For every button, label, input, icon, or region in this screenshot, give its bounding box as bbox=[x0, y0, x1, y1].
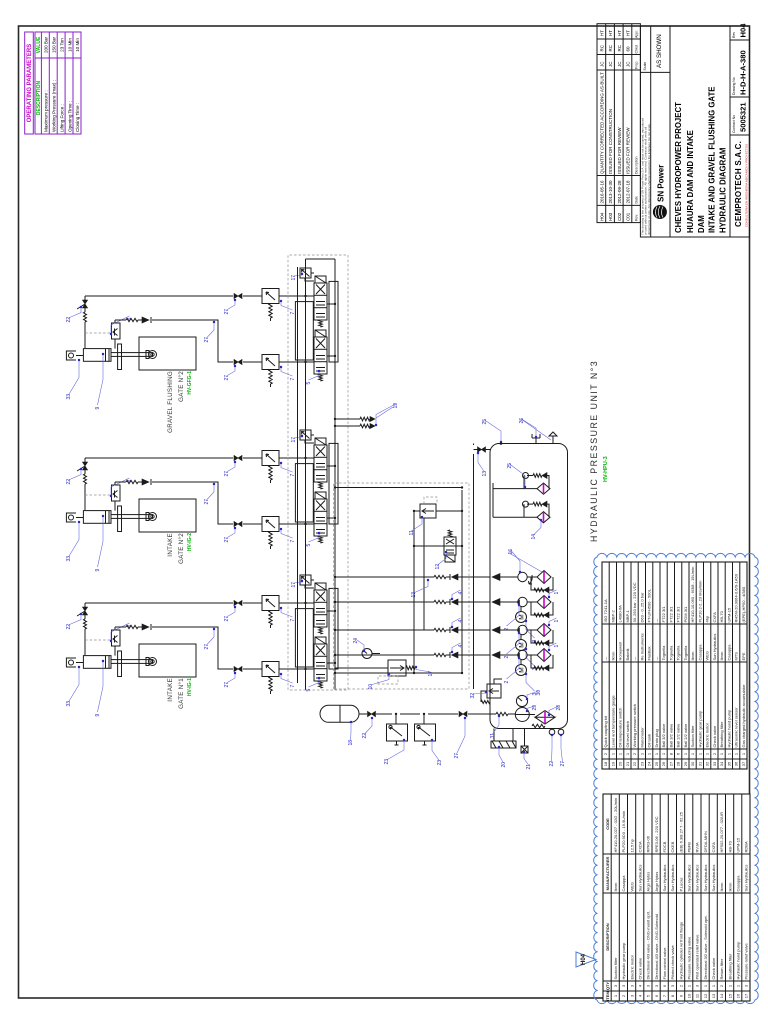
svg-text:HYDRAULIC PRESSURE UNIT N°3: HYDRAULIC PRESSURE UNIT N°3 bbox=[589, 360, 599, 542]
level gauge 20 bbox=[491, 741, 516, 748]
svg-text:Scale: Scale bbox=[643, 62, 647, 71]
title block bbox=[640, 23, 749, 237]
svg-text:CXFA: CXFA bbox=[712, 612, 717, 623]
svg-text:Manometer: Manometer bbox=[640, 727, 645, 748]
svg-text:Sun Hydraulics: Sun Hydraulics bbox=[695, 865, 700, 892]
svg-text:4: 4 bbox=[458, 592, 464, 595]
svg-text:MBP-2: MBP-2 bbox=[611, 610, 616, 623]
svg-text:QUANTITY CORRECTED ACCORDING A: QUANTITY CORRECTED ACCORDING AS-BUILT bbox=[600, 72, 605, 174]
svg-text:14: 14 bbox=[719, 993, 724, 998]
svg-text:29: 29 bbox=[683, 761, 688, 766]
svg-text:28: 28 bbox=[556, 705, 562, 711]
svg-text:Check valve: Check valve bbox=[638, 957, 643, 980]
svg-text:RPE3-06 - 220 VDC: RPE3-06 - 220 VDC bbox=[654, 816, 659, 852]
shut-off 27 bbox=[459, 711, 467, 716]
svg-text:Sun Hydraulics: Sun Hydraulics bbox=[711, 865, 716, 892]
wire cylinder rod-side to ball valve bbox=[85, 296, 314, 348]
svg-text:37: 37 bbox=[741, 761, 746, 766]
wire cylinder piston-side via hose and check to valve block bbox=[115, 320, 314, 362]
main DCV 5 (left) bbox=[314, 330, 327, 381]
svg-text:Directional 3/2 valve - Soleno: Directional 3/2 valve - Solenoid oprt. bbox=[703, 915, 708, 979]
tank breather and filler bbox=[532, 434, 540, 444]
drain fittings bbox=[549, 729, 555, 735]
svg-text:FT22 3/1: FT22 3/1 bbox=[676, 606, 681, 623]
reducing header bbox=[423, 518, 425, 630]
svg-text:PBFB: PBFB bbox=[687, 842, 692, 853]
svg-text:JC: JC bbox=[617, 61, 622, 67]
flow control valve 7 pipe A bbox=[262, 289, 279, 304]
svg-text:FT22 3/1: FT22 3/1 bbox=[661, 606, 666, 623]
svg-text:Casappa: Casappa bbox=[736, 875, 741, 892]
svg-text:17: 17 bbox=[428, 671, 434, 677]
suction filter diamond bbox=[537, 596, 551, 609]
svg-text:Casappa: Casappa bbox=[727, 644, 732, 661]
operating parameters table bbox=[25, 32, 81, 134]
svg-text:12: 12 bbox=[435, 564, 441, 570]
svg-text:HUAURA DAM AND INTAKE: HUAURA DAM AND INTAKE bbox=[686, 130, 695, 233]
svg-text:JC: JC bbox=[626, 61, 631, 67]
svg-text:17: 17 bbox=[291, 275, 297, 281]
svg-text:GATE N°1: GATE N°1 bbox=[178, 678, 185, 709]
svg-text:INTAKE: INTAKE bbox=[167, 533, 174, 557]
svg-text:9: 9 bbox=[95, 407, 101, 410]
svg-text:Bakelit: Bakelit bbox=[625, 648, 630, 661]
svg-text:Electric motor: Electric motor bbox=[705, 722, 710, 747]
svg-text:CONSULTORIA EN INGENIERIA MECA: CONSULTORIA EN INGENIERIA MECANICA Y PRO… bbox=[745, 144, 749, 227]
svg-text:26: 26 bbox=[661, 761, 666, 766]
svg-text:Sun Hydraulics: Sun Hydraulics bbox=[662, 865, 667, 892]
svg-text:ISSUED FOR CONSTRUCTION: ISSUED FOR CONSTRUCTION bbox=[608, 109, 613, 174]
hose flexible line bbox=[84, 312, 87, 322]
reducing valve 11 bbox=[420, 504, 436, 518]
svg-text:Ball 3/2 valve: Ball 3/2 valve bbox=[669, 723, 674, 748]
svg-text:Sun Hydraulics: Sun Hydraulics bbox=[703, 865, 708, 892]
svg-text:26: 26 bbox=[519, 418, 525, 424]
svg-text:Casappa: Casappa bbox=[621, 875, 626, 892]
svg-text:JC: JC bbox=[600, 61, 605, 67]
svg-text:Fluidtek: Fluidtek bbox=[647, 646, 652, 660]
svg-text:Hydraulic gear pump: Hydraulic gear pump bbox=[698, 710, 703, 748]
svg-text:FDCB: FDCB bbox=[662, 841, 667, 852]
svg-text:PLP20.9D3 - 19.9L/min: PLP20.9D3 - 19.9L/min bbox=[621, 811, 626, 853]
svg-text:27: 27 bbox=[560, 761, 566, 767]
svg-text:30: 30 bbox=[536, 690, 542, 696]
svg-text:33: 33 bbox=[712, 761, 717, 766]
svg-text:Oil tank: Oil tank bbox=[647, 734, 652, 748]
svg-text:Ikron: Ikron bbox=[727, 883, 732, 892]
svg-text:22: 22 bbox=[549, 761, 555, 767]
svg-text:19: 19 bbox=[393, 403, 399, 409]
svg-text:Hydraulic gear pump: Hydraulic gear pump bbox=[621, 942, 626, 980]
svg-text:P.Lucas: P.Lucas bbox=[678, 878, 683, 892]
pressure gauge 24 bbox=[362, 649, 372, 659]
revision triangle H04 bbox=[576, 952, 596, 967]
ball valve 27 on pipe A bbox=[234, 293, 242, 298]
svg-text:PGM 3/1: PGM 3/1 bbox=[683, 606, 688, 623]
svg-text:Ikron: Ikron bbox=[613, 883, 618, 892]
svg-text:Directional 4/3 valve - DNG-ma: Directional 4/3 valve - DNG-manit oprt. bbox=[646, 911, 651, 980]
hose bbox=[496, 712, 508, 715]
svg-text:Working pressure switch: Working pressure switch bbox=[632, 704, 637, 748]
svg-text:HF410-20.027 - 02/2 - 20L/min: HF410-20.027 - 02/2 - 20L/min bbox=[613, 798, 618, 853]
svg-text:Appr.: Appr. bbox=[635, 30, 639, 38]
valve manifold dashed enclosure bbox=[288, 255, 348, 690]
svg-text:150 Bar: 150 Bar bbox=[52, 36, 57, 53]
svg-text:MBP-1: MBP-1 bbox=[625, 610, 630, 623]
svg-text:21: 21 bbox=[526, 764, 532, 770]
svg-text:Suction filter: Suction filter bbox=[690, 725, 695, 748]
svg-text:QTY: QTY bbox=[605, 982, 610, 991]
check valve 13 into tank bbox=[474, 449, 491, 451]
svg-text:RH5M-20.0064-0.6/S-1A50: RH5M-20.0064-0.6/S-1A50 bbox=[734, 573, 739, 622]
svg-text:Sun Hydraulics: Sun Hydraulics bbox=[744, 865, 749, 892]
svg-text:HYDRAULIC DIAGRAM: HYDRAULIC DIAGRAM bbox=[719, 148, 728, 233]
svg-text:200 Bar: 200 Bar bbox=[44, 36, 49, 53]
svg-text:Tognella: Tognella bbox=[661, 645, 666, 661]
svg-text:Level and temperature gauge: Level and temperature gauge bbox=[611, 694, 616, 747]
svg-text:23: 23 bbox=[384, 759, 390, 765]
svg-text:ISO 7241-1A: ISO 7241-1A bbox=[603, 599, 608, 622]
svg-text:27: 27 bbox=[454, 753, 460, 759]
svg-text:CXDA: CXDA bbox=[638, 841, 643, 852]
svg-text:Ball 3/2 valve: Ball 3/2 valve bbox=[661, 723, 666, 748]
svg-text:RC: RC bbox=[608, 44, 613, 51]
svg-text:23: 23 bbox=[640, 761, 645, 766]
svg-text:Contract No: Contract No bbox=[732, 115, 736, 133]
svg-text:SN Power: SN Power bbox=[656, 165, 665, 202]
svg-text:10 Min: 10 Min bbox=[75, 38, 80, 52]
relief valve 10 bbox=[388, 660, 406, 676]
svg-text:13: 13 bbox=[482, 471, 488, 477]
svg-text:DESCRIPTION: DESCRIPTION bbox=[36, 81, 42, 116]
svg-text:28: 28 bbox=[676, 761, 681, 766]
svg-text:H-D-H-A-380: H-D-H-A-380 bbox=[739, 50, 748, 95]
svg-text:20: 20 bbox=[501, 762, 507, 768]
svg-text:DFDA-MHN: DFDA-MHN bbox=[703, 831, 708, 852]
svg-text:20: 20 bbox=[618, 761, 623, 766]
svg-text:CODE: CODE bbox=[605, 818, 610, 830]
gate circuit: intake gate 1 (copy) bbox=[66, 575, 338, 717]
svg-text:4hp: 4hp bbox=[705, 615, 710, 622]
svg-text:2016-05-16: 2016-05-16 bbox=[600, 180, 605, 204]
svg-text:Casappa: Casappa bbox=[698, 644, 703, 661]
svg-text:23: 23 bbox=[437, 760, 443, 766]
svg-text:36: 36 bbox=[734, 761, 739, 766]
svg-text:Piloted check valve: Piloted check valve bbox=[670, 944, 675, 979]
svg-text:Quick coupling kit: Quick coupling kit bbox=[603, 715, 608, 747]
svg-text:Honeywell: Honeywell bbox=[618, 642, 623, 661]
svg-text:Tognella: Tognella bbox=[669, 645, 674, 661]
svg-text:Description: Description bbox=[635, 156, 639, 174]
hydraulic cylinder 9 with clevis and gate leaf bbox=[66, 351, 76, 360]
svg-text:19: 19 bbox=[611, 761, 616, 766]
svg-text:WEG: WEG bbox=[629, 882, 634, 892]
pilot valve 17 bbox=[300, 268, 311, 278]
svg-text:VALUE: VALUE bbox=[36, 36, 42, 53]
svg-text:GATE N°2: GATE N°2 bbox=[178, 533, 185, 564]
svg-text:C01: C01 bbox=[626, 212, 631, 221]
svg-text:30: 30 bbox=[690, 761, 695, 766]
svg-text:Gas charged hydraulic accumula: Gas charged hydraulic accumulator bbox=[741, 684, 746, 748]
svg-text:ISSUED FOR REVIEW: ISSUED FOR REVIEW bbox=[617, 127, 622, 174]
accumulator 18 and hand pump line bbox=[320, 679, 562, 766]
svg-text:30..250 bar - 220 VDC: 30..250 bar - 220 VDC bbox=[632, 582, 637, 622]
svg-text:27: 27 bbox=[204, 337, 210, 343]
svg-text:C02: C02 bbox=[617, 212, 622, 221]
svg-text:Ikron: Ikron bbox=[611, 652, 616, 661]
check valve 27 bbox=[142, 317, 149, 323]
svg-text:OPERATING PARAMETERS: OPERATING PARAMETERS bbox=[27, 44, 33, 122]
svg-text:HT: HT bbox=[608, 30, 613, 36]
pressure switches 23 bbox=[396, 714, 424, 724]
svg-text:27: 27 bbox=[224, 309, 230, 315]
svg-text:RDBA: RDBA bbox=[744, 841, 749, 852]
svg-text:2012-09-28: 2012-09-28 bbox=[617, 180, 622, 204]
svg-text:HT: HT bbox=[626, 30, 631, 36]
hand pump group (no motor) bbox=[335, 549, 553, 598]
ball valve 22 bbox=[82, 300, 87, 308]
svg-text:Hydraulic hand pump: Hydraulic hand pump bbox=[727, 709, 732, 748]
svg-text:HV-HPU-3: HV-HPU-3 bbox=[603, 456, 609, 482]
solenoid valve 12 bbox=[444, 530, 456, 562]
svg-text:32: 32 bbox=[705, 761, 710, 766]
project title bbox=[674, 87, 728, 233]
svg-text:ITEM: ITEM bbox=[605, 991, 610, 1001]
svg-text:15: 15 bbox=[727, 993, 732, 998]
svg-text:Sun Hydraulics: Sun Hydraulics bbox=[638, 865, 643, 892]
svg-text:Sun Hydraulics: Sun Hydraulics bbox=[687, 865, 692, 892]
oil tank 24 bbox=[490, 444, 568, 729]
svg-text:1: 1 bbox=[554, 592, 560, 595]
svg-text:---: --- bbox=[632, 656, 637, 661]
quick couplings 19 bbox=[335, 419, 360, 426]
svg-text:HV-IG-2: HV-IG-2 bbox=[187, 533, 193, 551]
svg-text:H03: H03 bbox=[608, 212, 613, 221]
svg-text:D63 - 0..25.0 bar: D63 - 0..25.0 bar bbox=[640, 592, 645, 623]
svg-text:UPM-15: UPM-15 bbox=[736, 837, 741, 852]
svg-text:11: 11 bbox=[409, 530, 415, 535]
svg-text:Breathing filter: Breathing filter bbox=[727, 953, 732, 979]
svg-text:(EPE)-HP50 - 4/380: (EPE)-HP50 - 4/380 bbox=[741, 586, 746, 622]
svg-text:Sun Hydraulics: Sun Hydraulics bbox=[670, 865, 675, 892]
svg-text:10: 10 bbox=[687, 993, 692, 998]
gate circuit: intake gate 2 (copy) bbox=[66, 430, 338, 572]
svg-text:H04: H04 bbox=[739, 23, 748, 38]
svg-text:Rev: Rev bbox=[732, 32, 736, 38]
svg-text:INTAKE AND GRAVEL FLUSHING GAT: INTAKE AND GRAVEL FLUSHING GATE bbox=[708, 87, 717, 233]
svg-text:Hydraulic hand pump: Hydraulic hand pump bbox=[736, 941, 741, 980]
svg-text:Electric motor: Electric motor bbox=[629, 954, 634, 979]
svg-text:25: 25 bbox=[507, 463, 513, 469]
DCV tank/pressure stubs bbox=[327, 304, 335, 356]
svg-text:CEMPROTECH S.A.C.: CEMPROTECH S.A.C. bbox=[734, 141, 743, 227]
svg-text:Re Instruments: Re Instruments bbox=[640, 633, 645, 660]
svg-text:Return filter: Return filter bbox=[719, 958, 724, 979]
svg-text:10 Min: 10 Min bbox=[67, 38, 72, 52]
svg-text:24: 24 bbox=[647, 761, 652, 766]
svg-text:HF502-20.077 - 02/UR: HF502-20.077 - 02/UR bbox=[719, 812, 724, 853]
svg-text:H04: H04 bbox=[581, 953, 587, 965]
svg-text:34: 34 bbox=[719, 761, 724, 766]
svg-text:RC: RC bbox=[600, 44, 605, 51]
return header and filters 14 bbox=[493, 483, 537, 517]
svg-text:Check valve: Check valve bbox=[711, 957, 716, 980]
svg-text:---: --- bbox=[654, 618, 659, 623]
svg-text:---: --- bbox=[603, 656, 608, 661]
piloted check valve 8 bbox=[112, 323, 121, 339]
port routing loop below DCVs bbox=[329, 281, 338, 362]
svg-text:Flow control valve: Flow control valve bbox=[662, 947, 667, 980]
pressure riser to pump header bbox=[335, 487, 462, 489]
svg-text:Lifting Force :: Lifting Force : bbox=[59, 104, 64, 132]
svg-text:33: 33 bbox=[66, 394, 72, 400]
svg-text:Pressure reducing valve: Pressure reducing valve bbox=[687, 936, 692, 980]
pilot routing loop above DCVs bbox=[295, 302, 313, 360]
svg-text:31: 31 bbox=[490, 733, 496, 739]
svg-text:FT-UFH500 - 500L: FT-UFH500 - 500L bbox=[647, 588, 652, 622]
SN Power logo bbox=[653, 165, 667, 219]
svg-text:Ball 2/2 valve: Ball 2/2 valve bbox=[683, 723, 688, 748]
svg-text:12.5 hp: 12.5 hp bbox=[629, 838, 634, 852]
svg-text:12: 12 bbox=[703, 993, 708, 998]
svg-text:HV-IG-1: HV-IG-1 bbox=[187, 678, 193, 696]
svg-text:GRAVEL FLUSHING: GRAVEL FLUSHING bbox=[167, 371, 174, 433]
svg-text:WEG: WEG bbox=[705, 651, 710, 661]
svg-text:AS SHOWN: AS SHOWN bbox=[656, 34, 663, 68]
svg-text:Prep.: Prep. bbox=[635, 61, 639, 69]
level switch 21 bbox=[521, 746, 528, 753]
svg-text:Tognella: Tognella bbox=[683, 645, 688, 661]
svg-text:MTS: MTS bbox=[734, 652, 739, 661]
revision cloud bbox=[594, 553, 759, 1003]
svg-text:EPE: EPE bbox=[741, 652, 746, 660]
svg-text:CXFA: CXFA bbox=[711, 842, 716, 853]
svg-text:dimensions on site. Any discre: dimensions on site. Any discrepancy shal… bbox=[647, 123, 651, 235]
svg-text:Oil temperature switch: Oil temperature switch bbox=[618, 708, 623, 748]
svg-text:HB-70: HB-70 bbox=[719, 610, 724, 622]
svg-text:Rev.: Rev. bbox=[635, 214, 639, 221]
svg-text:Directional 4/3 valve - DNG-So: Directional 4/3 valve - DNG-Solenoid bbox=[654, 914, 659, 979]
svg-text:7: 7 bbox=[290, 378, 296, 381]
svg-text:CHEVES HYDROPOWER PROJECT: CHEVES HYDROPOWER PROJECT bbox=[674, 102, 683, 233]
parts list table items 18-37 bbox=[602, 562, 747, 769]
gate leaf box bbox=[139, 337, 196, 370]
manifold internal headers bbox=[335, 490, 462, 673]
svg-text:HF410-10.060 - 6/3/8 - 19L/min: HF410-10.060 - 6/3/8 - 19L/min bbox=[690, 567, 695, 623]
svg-text:JC: JC bbox=[608, 61, 613, 67]
svg-text:10: 10 bbox=[368, 684, 374, 690]
svg-text:5: 5 bbox=[306, 382, 312, 385]
svg-text:Oil level switch: Oil level switch bbox=[625, 721, 630, 747]
pilot supply rail bbox=[297, 267, 299, 683]
svg-text:Argo Hytos: Argo Hytos bbox=[646, 872, 651, 892]
revision table bbox=[597, 24, 640, 223]
motor pump groups bbox=[335, 590, 560, 643]
svg-text:MANUFACTURER: MANUFACTURER bbox=[605, 857, 610, 891]
svg-text:Argo Hytos: Argo Hytos bbox=[654, 872, 659, 892]
svg-text:5005321: 5005321 bbox=[739, 102, 748, 132]
filling hand pump 29 and gauge 30 bbox=[515, 708, 529, 722]
svg-text:HT: HT bbox=[617, 30, 622, 36]
svg-text:DESCRIPTION: DESCRIPTION bbox=[605, 923, 610, 950]
gate circuit group: gravel flushing gate bbox=[66, 268, 338, 410]
svg-text:HB-70: HB-70 bbox=[727, 840, 732, 852]
svg-text:2012-07-18: 2012-07-18 bbox=[626, 180, 631, 204]
svg-text:Check valve: Check valve bbox=[712, 725, 717, 748]
svg-text:22: 22 bbox=[66, 317, 72, 323]
svg-text:14: 14 bbox=[531, 534, 537, 540]
svg-text:Ikron: Ikron bbox=[719, 883, 724, 892]
svg-text:25: 25 bbox=[482, 419, 488, 425]
svg-text:Sun Hydraulics: Sun Hydraulics bbox=[712, 634, 717, 661]
svg-text:21: 21 bbox=[625, 761, 630, 766]
svg-text:25: 25 bbox=[654, 761, 659, 766]
svg-text:ISSUED FOR REVIEW: ISSUED FOR REVIEW bbox=[626, 127, 631, 174]
svg-text:23 Ton: 23 Ton bbox=[59, 38, 64, 52]
return line to tank bbox=[473, 444, 475, 690]
svg-text:FT22 3/1: FT22 3/1 bbox=[669, 606, 674, 623]
svg-text:Tognella: Tognella bbox=[676, 645, 681, 661]
svg-text:32: 32 bbox=[470, 693, 476, 699]
svg-text:Working Pressure (max) :: Working Pressure (max) : bbox=[52, 80, 57, 132]
svg-text:Pilot operated relief valve: Pilot operated relief valve bbox=[695, 934, 700, 980]
svg-text:Breathing filter: Breathing filter bbox=[719, 721, 724, 747]
svg-text:24: 24 bbox=[353, 638, 359, 644]
pressure and tank rails bbox=[306, 259, 336, 690]
svg-text:27: 27 bbox=[224, 375, 230, 381]
disclaimer strip bbox=[641, 118, 651, 235]
svg-text:Suction filter: Suction filter bbox=[613, 957, 618, 980]
svg-text:Ikron: Ikron bbox=[690, 652, 695, 661]
relief valve 32 bbox=[487, 684, 501, 698]
svg-text:Ultrasonic level sensor: Ultrasonic level sensor bbox=[734, 707, 739, 748]
svg-text:(EB) 6.3/8.27 7 - 62.25: (EB) 6.3/8.27 7 - 62.25 bbox=[678, 811, 683, 852]
svg-text:CKEB: CKEB bbox=[670, 841, 675, 852]
svg-text:L4080-6A: L4080-6A bbox=[618, 605, 623, 623]
svg-text:Date: Date bbox=[635, 196, 639, 203]
svg-text:RPR3-06: RPR3-06 bbox=[646, 835, 651, 852]
svg-text:DAM: DAM bbox=[697, 215, 706, 233]
svg-text:RVJA: RVJA bbox=[695, 842, 700, 852]
svg-text:INTAKE: INTAKE bbox=[167, 678, 174, 702]
svg-text:GATE N°2: GATE N°2 bbox=[178, 371, 185, 402]
svg-text:35: 35 bbox=[727, 761, 732, 766]
ball valve 27 on pipe B bbox=[234, 359, 242, 364]
svg-text:13: 13 bbox=[411, 592, 417, 598]
svg-text:13: 13 bbox=[711, 993, 716, 998]
svg-text:18: 18 bbox=[348, 740, 354, 746]
svg-text:M: M bbox=[519, 614, 526, 619]
parts list table items 1-17 bbox=[603, 794, 750, 1001]
svg-text:RC: RC bbox=[617, 44, 622, 51]
svg-text:29: 29 bbox=[532, 705, 538, 711]
svg-text:60: 60 bbox=[626, 46, 631, 52]
svg-text:Opening Time :: Opening Time : bbox=[67, 101, 72, 132]
HPU manifold dashed enclosure bbox=[334, 483, 470, 689]
svg-text:PLP10.2-2..23 l/rev/min: PLP10.2-2..23 l/rev/min bbox=[698, 581, 703, 623]
svg-text:Drain plug: Drain plug bbox=[654, 729, 659, 747]
flow control valve 7 pipe B bbox=[262, 355, 279, 370]
svg-text:H04: H04 bbox=[600, 212, 605, 221]
svg-text:Chkd: Chkd bbox=[635, 45, 639, 53]
svg-text:Drawing No: Drawing No bbox=[732, 77, 736, 95]
svg-text:HV-GFG-1: HV-GFG-1 bbox=[187, 371, 193, 395]
svg-text:2013-10-30: 2013-10-30 bbox=[608, 180, 613, 204]
svg-text:18: 18 bbox=[603, 761, 608, 766]
svg-text:Pressure relief valve: Pressure relief valve bbox=[744, 942, 749, 979]
svg-text:31: 31 bbox=[698, 761, 703, 766]
solenoid pilot valve 6 (right DCV) bbox=[314, 276, 327, 327]
